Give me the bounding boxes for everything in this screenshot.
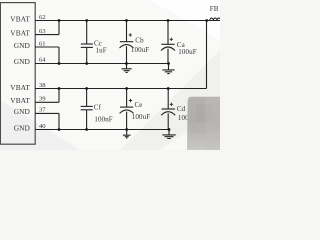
svg-text:Ce: Ce <box>135 101 143 109</box>
svg-text:VBAT: VBAT <box>10 83 30 92</box>
svg-text:100uF: 100uF <box>131 46 149 54</box>
wire riser 61 to 64 <box>58 47 60 64</box>
scan watermark blob <box>187 97 220 150</box>
svg-text:62: 62 <box>39 14 46 21</box>
paper background <box>0 0 220 150</box>
wire riser 39 to 38 <box>58 89 60 103</box>
capacitor Cf leads <box>86 89 88 107</box>
wire pin 39 stub <box>35 101 59 103</box>
wire GND rail pin 64 <box>35 63 169 65</box>
node Cd top <box>167 87 170 90</box>
node Cc bottom <box>85 62 88 65</box>
capacitor Cb plates <box>120 41 133 43</box>
svg-text:GND: GND <box>14 107 31 116</box>
node Ca bottom <box>167 62 170 65</box>
node Cd bottom <box>168 128 171 131</box>
wire pin 63 stub <box>35 34 59 36</box>
node Cc top <box>85 19 88 22</box>
capacitor Ca plates <box>161 43 174 45</box>
svg-text:GND: GND <box>14 41 31 50</box>
ground symbol under Cb <box>122 64 132 73</box>
node pin39/38 junction <box>58 87 61 90</box>
svg-text:VBAT: VBAT <box>10 96 30 105</box>
ferrite bead FB coil <box>210 18 221 21</box>
svg-text:100nF: 100nF <box>94 115 112 123</box>
node pin62/63 junction <box>58 19 61 22</box>
ground symbol under Ce <box>123 130 131 139</box>
svg-text:37: 37 <box>39 107 46 114</box>
svg-text:40: 40 <box>39 123 46 130</box>
node FB junction <box>205 19 208 22</box>
svg-text:Cd: Cd <box>177 105 186 113</box>
node Cb bottom <box>125 62 128 65</box>
wire VBAT rail pin 62 <box>35 20 220 22</box>
wire FB riser from top rail to pin38 rail <box>206 21 208 89</box>
polarity plus Ca <box>170 38 173 41</box>
wire GND rail pin 40 <box>35 129 169 131</box>
node Ce bottom <box>125 128 128 131</box>
svg-text:100uF: 100uF <box>132 113 150 121</box>
svg-text:VBAT: VBAT <box>10 29 30 38</box>
svg-text:100uF: 100uF <box>178 48 196 56</box>
node Cf top <box>85 87 88 90</box>
svg-text:1uF: 1uF <box>96 47 107 55</box>
wire VBAT rail pin 38 <box>35 88 207 90</box>
node Ca top <box>167 19 170 22</box>
polarity plus Cd <box>170 103 173 106</box>
svg-text:Cf: Cf <box>94 104 102 112</box>
ground symbol under Ca <box>162 64 174 74</box>
svg-text:GND: GND <box>14 57 31 66</box>
capacitor Ca leads <box>167 21 169 45</box>
capacitor Ce leads <box>126 89 128 108</box>
polarity plus Ce <box>129 99 132 102</box>
node Ce top <box>125 87 128 90</box>
svg-text:63: 63 <box>39 28 46 35</box>
wire pin 37 stub <box>35 112 59 114</box>
node pin61/64 junction <box>58 62 61 65</box>
svg-text:FB: FB <box>210 5 219 13</box>
capacitor Cf plates <box>81 105 93 107</box>
capacitor Cd plates <box>162 108 175 110</box>
polarity plus Cb <box>129 33 132 36</box>
capacitor Ce plates <box>120 106 133 108</box>
wire riser 63 to 62 <box>58 21 60 35</box>
node Cf bottom <box>85 128 88 131</box>
svg-text:VBAT: VBAT <box>10 15 30 24</box>
wire pin 61 stub <box>35 46 59 48</box>
wire riser 37 to 40 <box>58 113 60 129</box>
svg-text:64: 64 <box>39 57 46 64</box>
svg-text:Cb: Cb <box>135 36 144 44</box>
capacitor Cc plates <box>81 43 93 45</box>
capacitor Cb leads <box>126 21 128 42</box>
svg-text:GND: GND <box>14 124 31 133</box>
node Cb top <box>125 19 128 22</box>
capacitor Cd leads <box>167 89 169 110</box>
capacitor C c leads <box>86 21 88 44</box>
svg-text:39: 39 <box>39 95 46 102</box>
IC module box U1 <box>0 3 35 145</box>
ground symbol under Cd <box>162 130 175 139</box>
svg-text:61: 61 <box>39 40 46 47</box>
node pin37/40 junction <box>58 128 61 131</box>
